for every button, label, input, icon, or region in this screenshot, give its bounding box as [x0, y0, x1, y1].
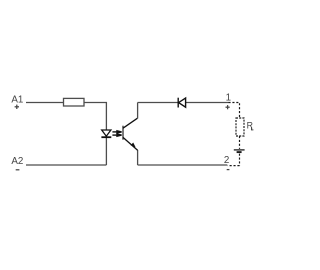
svg-text:1: 1	[226, 92, 231, 103]
svg-text:2: 2	[224, 155, 229, 166]
svg-text:R: R	[247, 121, 253, 131]
svg-text:A2: A2	[11, 156, 23, 167]
svg-text:A1: A1	[11, 95, 23, 106]
